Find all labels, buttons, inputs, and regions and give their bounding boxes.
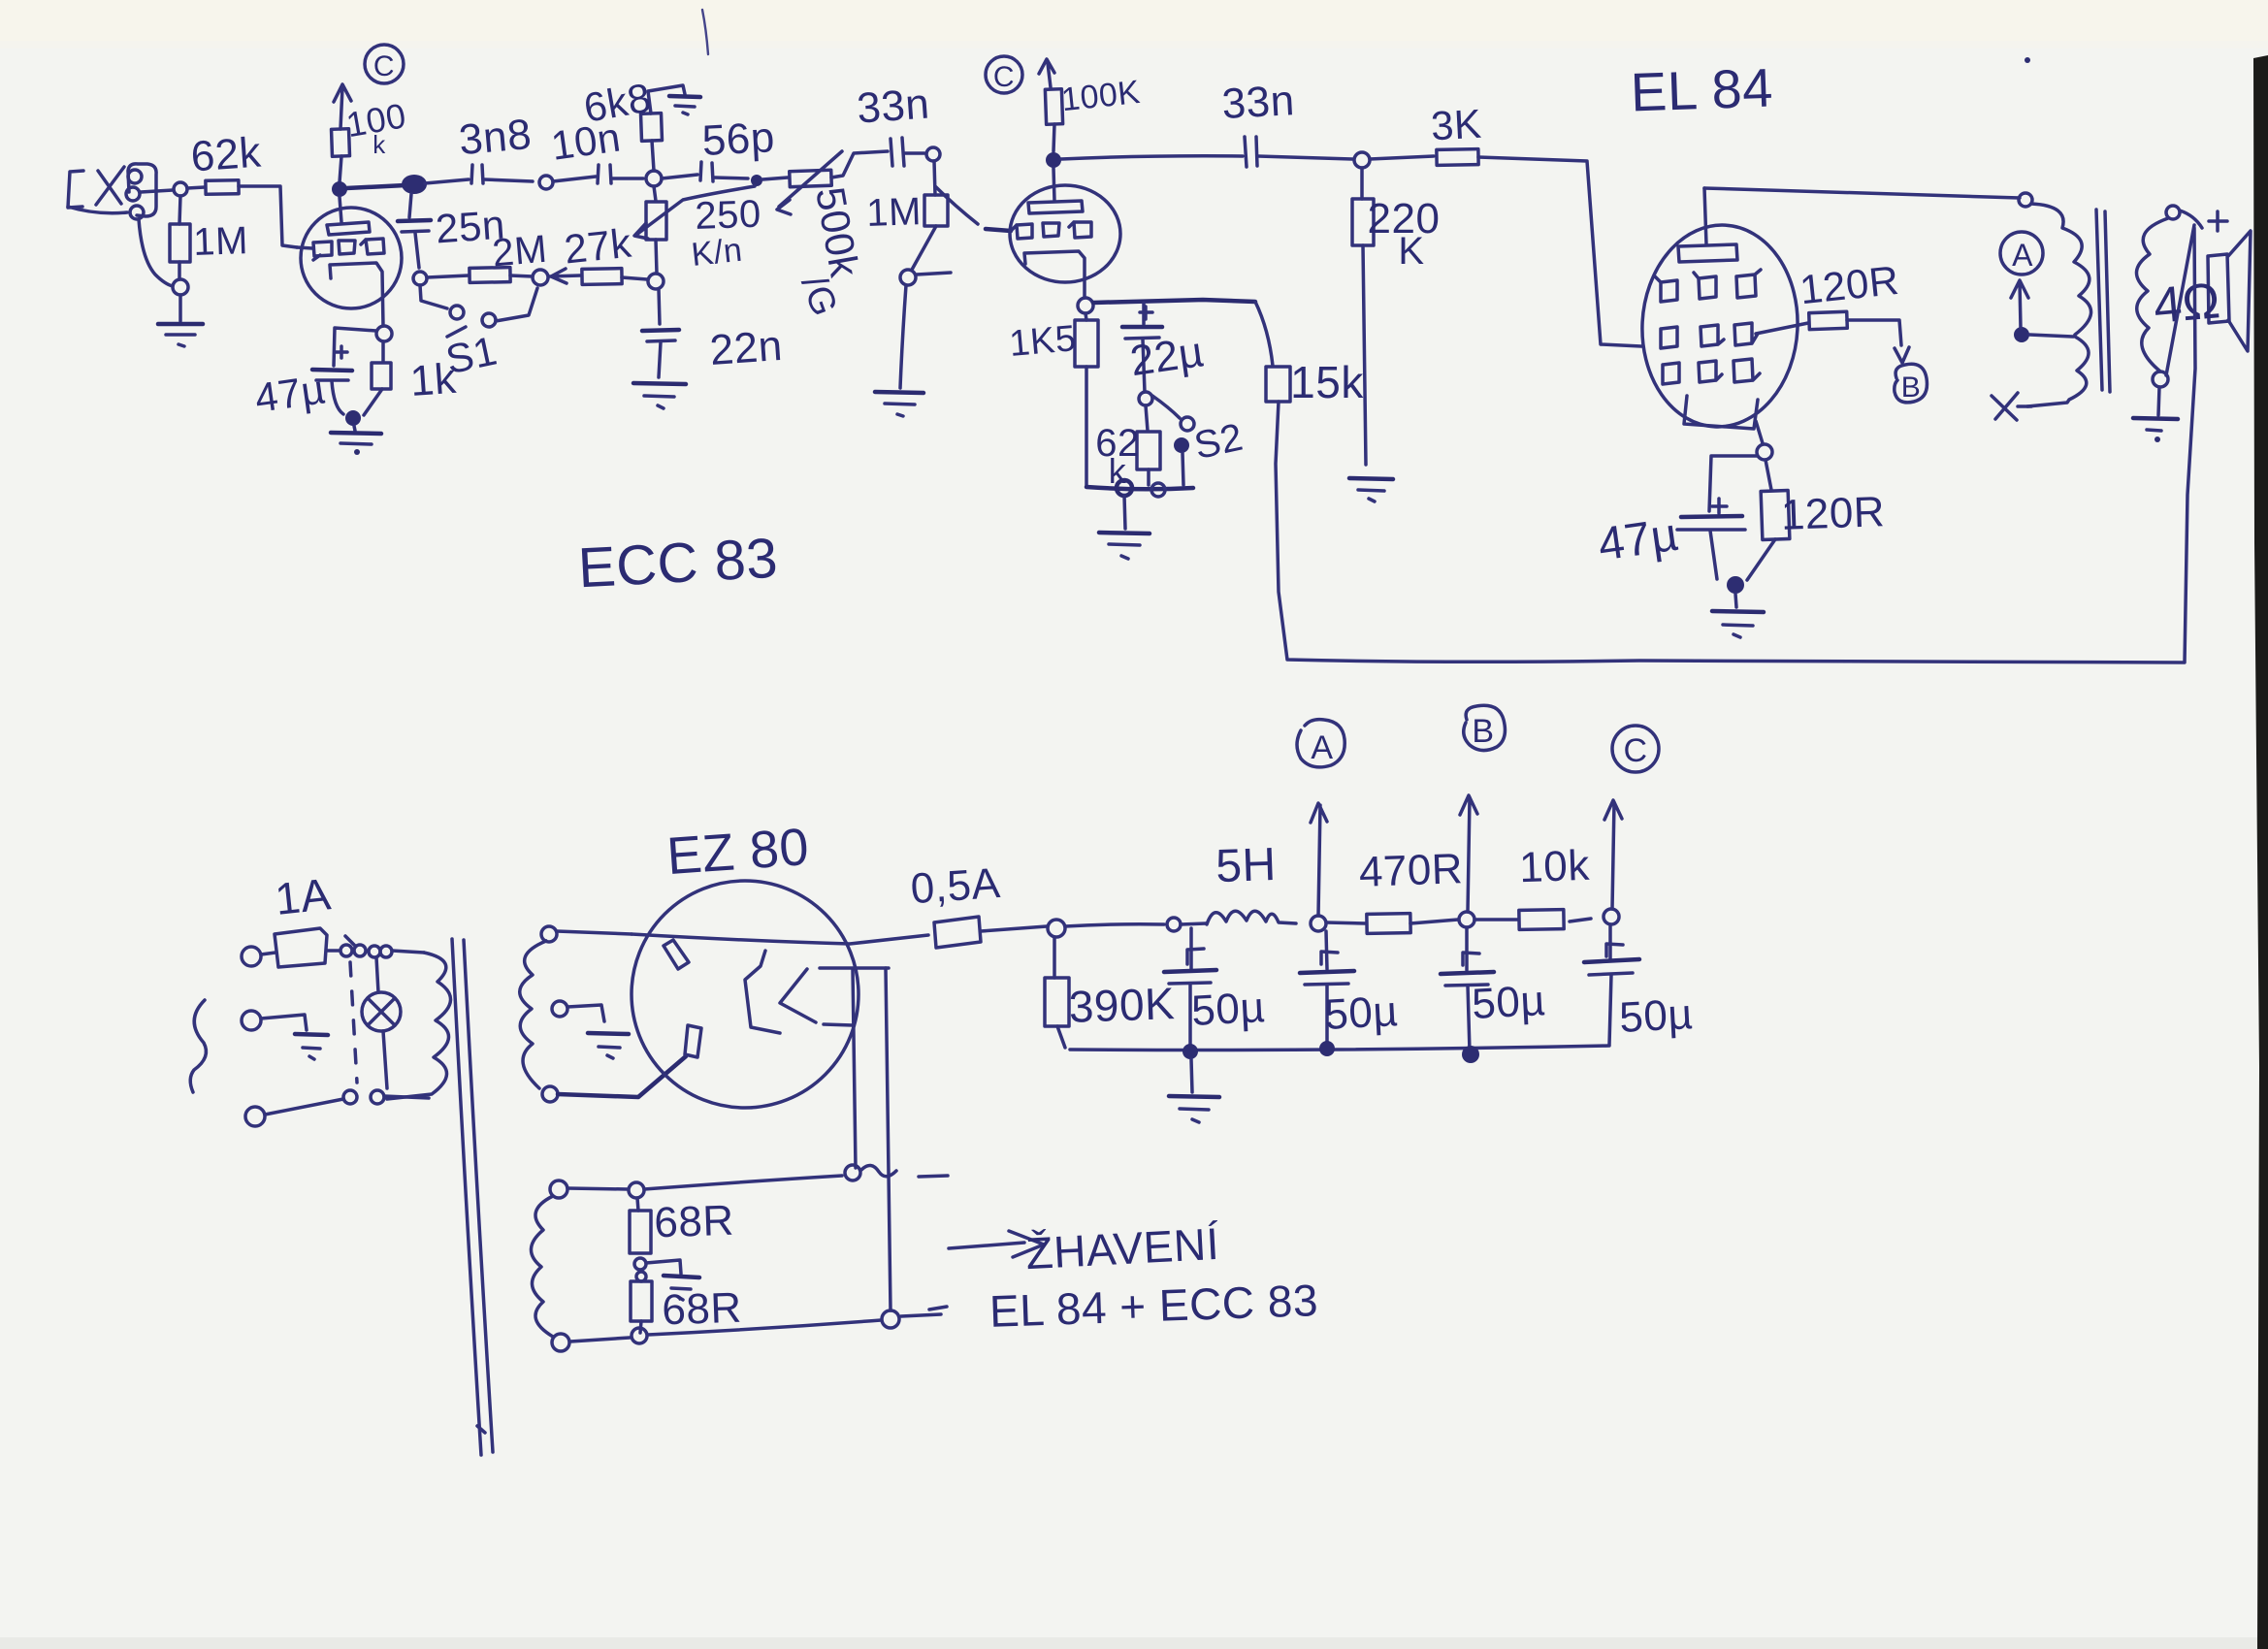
cathode pin circle <box>376 326 392 341</box>
switch S2 <box>1152 396 1194 485</box>
svg-text:50µ: 50µ <box>1471 977 1546 1028</box>
wire HT bottom to EZ80 plate2 <box>558 1056 686 1097</box>
choke 5H <box>1181 911 1296 924</box>
wire node to 62k <box>187 187 205 188</box>
capacitor 50u first <box>1164 928 1216 1047</box>
rail to 3K <box>1370 156 1434 159</box>
junction blob <box>402 175 427 194</box>
tap link <box>2029 335 2073 337</box>
capacitor 50u second <box>1300 931 1354 1046</box>
node 2M right <box>533 270 548 285</box>
capacitor 47u <box>312 370 352 380</box>
resistor 220K <box>1352 168 1374 465</box>
EL84 plate <box>1678 188 1737 262</box>
svg-text:22n: 22n <box>708 322 784 374</box>
switch contacts bottom <box>265 1090 429 1115</box>
svg-text:1K5: 1K5 <box>1008 318 1079 365</box>
svg-text:ŽHAVENÍ: ŽHAVENÍ <box>1024 1218 1220 1278</box>
ground under 22n <box>633 383 686 408</box>
cathode pin circle EL84 <box>1757 444 1772 460</box>
arrow to C2 <box>1039 59 1054 87</box>
svg-text:4Ω: 4Ω <box>2152 273 2223 335</box>
capacitor 56p <box>662 162 748 181</box>
svg-text:ECC 83: ECC 83 <box>576 527 779 600</box>
capacitor 22u <box>1122 303 1162 392</box>
node 220K <box>1354 152 1370 168</box>
svg-text:K/n: K/n <box>690 232 744 274</box>
svg-text:1A: 1A <box>273 868 333 924</box>
node 2M left <box>413 272 427 285</box>
svg-text:62k: 62k <box>189 129 263 181</box>
svg-text:27k: 27k <box>562 220 633 273</box>
power transformer core <box>452 939 493 1455</box>
svg-text:3n8: 3n8 <box>457 111 534 164</box>
HT bottom terminal <box>542 1086 558 1102</box>
resistor 1M second <box>912 195 948 270</box>
node under pot 250k <box>648 274 664 289</box>
EZ80 plate 1 <box>664 940 689 969</box>
speaker plus <box>2209 211 2227 231</box>
resistor 470R <box>1326 914 1458 934</box>
svg-text:C: C <box>1623 732 1647 769</box>
V1a grid <box>313 239 384 260</box>
node heater mid <box>845 1165 860 1180</box>
arrow up to B supply <box>1460 795 1477 912</box>
node filter1 <box>1167 918 1181 931</box>
node 68R top <box>629 1182 644 1198</box>
svg-text:EZ 80: EZ 80 <box>665 818 811 886</box>
plate rail to transformer <box>1704 188 2020 198</box>
triode V1b ECC83 envelope <box>1010 185 1120 282</box>
triode V1a ECC83 envelope <box>301 208 402 308</box>
resistor 1K5 <box>1075 320 1098 367</box>
fuse 1A <box>261 928 339 967</box>
stray dash near heater label <box>929 1307 947 1309</box>
arrow up to A <box>2011 280 2028 328</box>
node grid V1b <box>926 147 940 161</box>
heater top rail <box>567 1188 628 1189</box>
wire node to ground <box>900 285 906 388</box>
wire to ground <box>1735 594 1736 607</box>
bottom rail under V1b <box>1086 487 1193 489</box>
svg-text:56p: 56p <box>701 113 776 165</box>
cathode pin circle <box>1078 298 1093 313</box>
transformer core <box>2096 210 2110 392</box>
secondary bottom terminal <box>2153 372 2168 387</box>
wire to ground <box>1124 496 1125 529</box>
HT mid terminal <box>552 1001 567 1017</box>
stray dot right top <box>2025 57 2030 63</box>
heater wires from EZ80 <box>853 968 891 1310</box>
ground <box>1712 611 1764 637</box>
rectifier EZ80 envelope <box>632 881 859 1108</box>
V1a cathode <box>330 263 383 326</box>
svg-text:5H: 5H <box>1215 839 1277 892</box>
capacitor 22u plus <box>1140 307 1152 319</box>
node 68R bottom <box>632 1328 647 1343</box>
capacitor 33n first <box>891 138 924 166</box>
ground <box>331 433 381 455</box>
filter ground rail <box>1070 1046 1609 1051</box>
node under 1M <box>900 270 916 285</box>
node after 3n8 <box>539 176 553 189</box>
HT secondary winding <box>520 941 546 1088</box>
ground mains <box>295 1034 328 1059</box>
B+ rail <box>1065 924 1164 926</box>
wire 47u to node3 <box>332 381 343 414</box>
heater top rail right <box>644 1176 842 1189</box>
capacitor 47u second plus <box>1712 499 1727 513</box>
stray pen mark top center <box>702 10 708 54</box>
resistor 1M <box>170 224 190 262</box>
resistor 120R cathode <box>1747 460 1790 580</box>
wire 1K5 to bottom rail <box>1085 367 1088 485</box>
svg-text:0,5A: 0,5A <box>909 859 1002 913</box>
wire 100k to plate node <box>340 156 341 182</box>
pentode EL84 envelope <box>1637 221 1803 431</box>
wire cathode to 1K5 <box>1085 313 1086 320</box>
arrow to C1 <box>334 84 351 129</box>
power transformer primary <box>387 953 451 1099</box>
V1b grid <box>1012 222 1091 239</box>
svg-text:A: A <box>2012 238 2033 273</box>
EL84 pin squares row1 <box>1655 270 1761 302</box>
stub wire right of node <box>917 273 951 275</box>
ground HT <box>588 1033 629 1058</box>
node heater bottom right <box>882 1310 899 1328</box>
svg-text:k: k <box>1109 451 1127 491</box>
svg-text:1M: 1M <box>193 219 249 264</box>
svg-text:k: k <box>373 130 386 159</box>
resistor 62k <box>206 180 239 195</box>
rail node1 <box>1183 1044 1198 1059</box>
heater winding 6V3 <box>531 1196 553 1337</box>
switch S1 <box>420 285 537 337</box>
svg-text:33n: 33n <box>1220 77 1295 128</box>
svg-text:K: K <box>1398 230 1424 273</box>
svg-text:C: C <box>373 50 395 82</box>
ground filter <box>1169 1096 1219 1122</box>
V1b cathode <box>1024 251 1085 298</box>
resistor 1k <box>364 341 391 415</box>
svg-text:50µ: 50µ <box>1323 987 1399 1039</box>
secondary top terminal <box>2166 206 2180 219</box>
svg-text:50µ: 50µ <box>1190 984 1266 1035</box>
V1a grid lead <box>297 247 312 248</box>
wire 1M to node2 <box>178 262 181 279</box>
node after 56p <box>751 175 762 186</box>
output transformer primary top terminal <box>2019 193 2032 207</box>
wire cathode row to 22u and 15k <box>1093 300 1255 303</box>
resistor 3K <box>1437 149 1478 166</box>
resistor 62k second <box>1137 405 1160 485</box>
svg-text:B: B <box>1472 713 1494 750</box>
resistor 120R screen <box>1809 311 1848 329</box>
heater bottom rail <box>570 1338 630 1342</box>
capacitor 25n <box>398 194 431 268</box>
svg-text:50µ: 50µ <box>1618 990 1694 1042</box>
wire node3 to ground <box>354 426 355 431</box>
node C1 <box>365 45 404 83</box>
primary lower half <box>2027 337 2089 406</box>
wire node2 to ground <box>178 295 182 321</box>
node A circled supply <box>1297 720 1345 767</box>
resistor 68R second <box>631 1281 652 1333</box>
bottom mains terminal <box>245 1107 265 1126</box>
wire to 47u second <box>1709 456 1757 511</box>
arrow to zhaveni <box>949 1231 1044 1257</box>
arrow up to A supply <box>1311 803 1327 916</box>
resistor 6k8 <box>641 85 685 171</box>
wire 27k to pot node <box>622 277 647 279</box>
B+ terminal <box>1048 920 1065 937</box>
wire 62k to grid V1a <box>239 186 297 247</box>
node C2 <box>986 56 1022 93</box>
dash right <box>901 1314 941 1316</box>
main rail through EZ80 to fuse <box>632 934 928 944</box>
mains neutral terminal <box>242 1011 261 1030</box>
wire 100K to plate node <box>1053 124 1054 151</box>
svg-text:1M: 1M <box>866 190 923 235</box>
scanner dark right edge <box>2253 55 2268 1649</box>
node3 <box>345 410 361 426</box>
svg-text:47µ: 47µ <box>252 366 328 421</box>
V1a plate <box>327 197 370 235</box>
node filter4 <box>1604 909 1619 924</box>
ground <box>158 324 203 346</box>
heater bottom terminal <box>552 1334 569 1351</box>
wire with arrow to 27k <box>549 269 580 283</box>
svg-text:120R: 120R <box>1780 488 1886 539</box>
feedback loop wire <box>1276 228 2195 663</box>
rail node2 <box>1319 1041 1335 1056</box>
secondary winding <box>2136 218 2168 372</box>
wire node to 1M <box>179 196 180 224</box>
resistor 15k <box>1255 302 1290 402</box>
svg-text:3K: 3K <box>1430 101 1483 149</box>
capacitor 47u second <box>1677 516 1745 579</box>
wire secondary to speaker <box>2180 210 2202 228</box>
speaker <box>2208 231 2251 351</box>
svg-text:390K: 390K <box>1068 978 1176 1032</box>
EZ80 cathode <box>745 951 889 1033</box>
fuse 0.5A <box>934 917 981 948</box>
node B circled <box>1895 364 1928 404</box>
node plate V1a <box>332 181 347 197</box>
wire fuse to B+ terminal <box>981 926 1047 931</box>
svg-text:EL 84: EL 84 <box>1630 56 1774 122</box>
node2 <box>173 279 188 295</box>
arrow down to B <box>1895 347 1909 363</box>
wire jack to node <box>141 190 173 192</box>
ground under 220K <box>1349 478 1393 501</box>
V1b grid lead <box>986 229 1011 231</box>
X phase mark <box>1992 393 2031 420</box>
node cathode RC <box>1727 576 1744 594</box>
heater bottom rail right <box>648 1320 881 1335</box>
wire rail to ground <box>1191 1059 1192 1092</box>
node under 6k8 <box>646 171 662 186</box>
resistor 100K second <box>1045 89 1062 125</box>
node A circled <box>2000 232 2043 275</box>
svg-text:68R: 68R <box>654 1197 735 1247</box>
resistor 390K <box>1045 937 1069 1048</box>
ground <box>875 392 923 416</box>
wire cathode to 47u <box>334 328 376 366</box>
wire 3K to EL84 grid <box>1478 157 1641 346</box>
svg-text:22µ: 22µ <box>1127 328 1207 385</box>
svg-text:15k: 15k <box>1290 357 1364 407</box>
EL84 pin squares row3 <box>1663 359 1760 384</box>
screen lead to 120R <box>1756 323 1808 334</box>
ground under secondary <box>2133 387 2178 442</box>
svg-text:2M: 2M <box>491 228 549 275</box>
svg-text:68R: 68R <box>662 1284 743 1335</box>
squiggle and dash <box>861 1165 948 1177</box>
mains tilde <box>190 1000 206 1092</box>
wire HT mid to ground <box>567 1005 604 1021</box>
ground at 6k8 <box>669 96 700 114</box>
capacitor 3n8 <box>425 165 533 183</box>
node ground side <box>1117 480 1132 496</box>
wire neutral to ground <box>261 1015 307 1030</box>
svg-text:10k: 10k <box>1518 842 1591 892</box>
V1b plate <box>1028 168 1083 213</box>
node filter3 <box>1459 912 1474 927</box>
feedback wire from speaker <box>2166 225 2194 375</box>
resistor 10k <box>1474 910 1591 930</box>
ground humpot <box>646 1260 699 1300</box>
potentiometer 500k <box>762 151 888 214</box>
heater top terminal <box>550 1180 567 1198</box>
output transformer primary winding <box>2031 204 2091 335</box>
resistor 100k <box>332 129 350 157</box>
node <box>174 182 187 196</box>
input jack J1 <box>68 164 156 219</box>
node C circled supply <box>1612 726 1659 772</box>
switch contacts top <box>340 936 424 957</box>
svg-text:33n: 33n <box>856 80 931 132</box>
capacitor 22n <box>642 289 679 377</box>
svg-text:C: C <box>993 61 1015 93</box>
wire node to grid V1b <box>934 161 978 224</box>
mains live terminal <box>242 947 261 966</box>
capacitor 50u fourth <box>1584 924 1639 1045</box>
capacitor 10n <box>553 165 643 183</box>
svg-text:250: 250 <box>695 193 762 238</box>
resistor 68R first <box>630 1198 651 1253</box>
EL84 pin squares row2 <box>1661 323 1758 348</box>
wire plate node to junction blob <box>346 185 405 188</box>
node 62k bottom <box>1151 483 1165 497</box>
wire HT top to EZ80 plate <box>557 931 632 934</box>
node S2 top <box>1139 392 1152 405</box>
ground <box>1099 533 1150 559</box>
EL84 cathode <box>1684 396 1758 429</box>
capacitor 50u third <box>1441 927 1494 1051</box>
resistor 2M <box>427 268 533 283</box>
plate rail to 33n second <box>1061 156 1243 159</box>
svg-text:A: A <box>1311 729 1333 766</box>
svg-text:B: B <box>1901 372 1922 404</box>
switch dashed link <box>350 962 357 1083</box>
node plate V1b <box>1046 152 1061 168</box>
capacitor 47u plus <box>336 346 347 358</box>
node B circled supply <box>1464 705 1506 750</box>
potentiometer 250k <box>634 186 755 274</box>
EZ80 plate 2 <box>685 1025 701 1057</box>
A tap node <box>2014 327 2029 342</box>
svg-text:470R: 470R <box>1358 845 1464 896</box>
wire jack sleeve to node2 <box>139 219 173 286</box>
wire 120R to B arrow <box>1847 320 1901 345</box>
HT top terminal <box>541 926 557 942</box>
resistor 27k <box>582 269 622 285</box>
capacitor 33n second <box>1245 137 1352 167</box>
node filter2 <box>1311 916 1326 931</box>
cathode lead <box>1756 421 1763 443</box>
rail node3 <box>1462 1046 1479 1063</box>
node humpot mid <box>634 1258 646 1281</box>
pilot lamp <box>362 957 401 1088</box>
arrow up to C supply <box>1604 800 1622 909</box>
